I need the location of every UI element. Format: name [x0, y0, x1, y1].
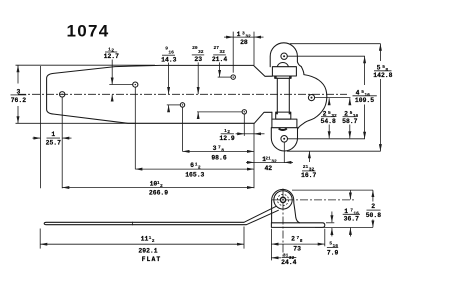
strap end extension lower — [253, 124, 255, 189]
svg-text:16: 16 — [333, 243, 339, 249]
dim 5/16 7.9 label — [327, 241, 339, 257]
plate middle hole — [308, 95, 314, 101]
dim 9/16 14.3 leader and arrows — [168, 63, 170, 95]
top knuckle band — [272, 67, 296, 76]
dim 1 7/16 36.7 — [349, 190, 351, 199]
dim 1/2 12.7 label — [104, 46, 120, 60]
side top extension line — [292, 189, 373, 191]
dim 6 1/2 165.3 — [135, 168, 254, 170]
svg-text:50.8: 50.8 — [366, 212, 382, 219]
hole C leader down — [182, 107, 184, 151]
base right extension — [324, 229, 326, 247]
svg-text:165.3: 165.3 — [185, 171, 204, 178]
dim 29/32 23 label — [192, 45, 204, 63]
svg-text:21.4: 21.4 — [212, 56, 228, 63]
svg-text:58.7: 58.7 — [342, 118, 358, 125]
svg-text:27: 27 — [213, 45, 219, 51]
svg-text:24.4: 24.4 — [281, 259, 297, 266]
svg-text:2: 2 — [152, 238, 155, 244]
svg-text:2: 2 — [160, 183, 163, 189]
dim 1/25.7 label — [46, 131, 62, 146]
butt plate right lobe outline — [298, 67, 327, 129]
plate bottom hole — [281, 136, 288, 143]
svg-text:36.7: 36.7 — [344, 216, 360, 223]
bracket base plate — [271, 223, 324, 228]
svg-text:1: 1 — [51, 131, 55, 138]
dim 5/16 7.9 arrows — [331, 212, 333, 223]
svg-text:266.9: 266.9 — [149, 190, 168, 197]
hole B row extension — [109, 84, 133, 86]
svg-text:2: 2 — [371, 203, 375, 210]
dim 10 1/2 266.9 — [62, 187, 254, 189]
flat strap side profile — [44, 206, 278, 224]
dim 3/76.2 dimension line — [17, 65, 19, 83]
svg-text:3: 3 — [213, 145, 217, 152]
svg-text:8: 8 — [300, 238, 303, 244]
dim 31/32 24.4 — [271, 257, 281, 259]
dim 1/25.7 arrows — [33, 137, 41, 139]
hole D leader down — [243, 114, 245, 136]
svg-text:2: 2 — [323, 110, 327, 117]
strap leaf outline — [47, 65, 273, 123]
plate bottom hole leader down — [283, 142, 285, 163]
dim 27/32 21.4 label — [212, 45, 228, 63]
knuckle strip end shading — [275, 76, 277, 78]
strap hidden curl dashed arc — [274, 192, 279, 203]
plate top hole extension line — [288, 55, 365, 57]
butt plate bottom dome — [271, 128, 297, 151]
hole B leader down — [134, 87, 136, 169]
plate middle hole extension line — [315, 97, 351, 99]
svg-text:29: 29 — [192, 45, 198, 51]
side bottom extension line — [315, 226, 373, 228]
svg-text:4: 4 — [356, 90, 360, 97]
svg-text:7.9: 7.9 — [327, 249, 339, 256]
hole B — [133, 82, 138, 87]
dim 11 1/2 292.1 FLAT — [39, 229, 41, 249]
svg-text:21: 21 — [265, 155, 271, 161]
strap-barrel joint line — [271, 112, 273, 119]
hole D row extension — [197, 111, 242, 113]
svg-text:25.7: 25.7 — [46, 139, 62, 146]
plate bottom extension line — [287, 150, 381, 152]
lower knuckle strip — [276, 112, 291, 119]
svg-text:28: 28 — [240, 39, 248, 46]
svg-text:292.1: 292.1 — [138, 248, 157, 255]
svg-text:FLAT: FLAT — [142, 256, 162, 263]
dim 1 3/32 28 — [224, 36, 233, 38]
hole C row extension — [167, 104, 180, 106]
svg-text:32: 32 — [271, 158, 277, 164]
strap mid tick — [132, 222, 134, 225]
dim 1/2 12.7 leader and arrows — [111, 60, 113, 85]
svg-text:109.5: 109.5 — [355, 97, 374, 104]
dim 3/76.2 top extension line — [16, 64, 156, 66]
dim 3/76.2 label — [11, 88, 27, 104]
svg-text:54.8: 54.8 — [321, 118, 337, 125]
dim 3 7/8 98.6 — [183, 150, 255, 152]
svg-text:76.2: 76.2 — [11, 97, 27, 104]
dim 2 50.8 — [372, 190, 374, 201]
hole A — [60, 92, 65, 97]
svg-text:42: 42 — [264, 165, 272, 172]
svg-text:1: 1 — [237, 31, 241, 38]
svg-text:98.6: 98.6 — [211, 154, 227, 161]
hole E — [231, 75, 235, 79]
dim 3/76.2 bottom extension line — [16, 122, 136, 124]
svg-text:16.7: 16.7 — [301, 172, 317, 179]
svg-text:31: 31 — [283, 252, 289, 258]
svg-text:2: 2 — [344, 110, 348, 117]
svg-text:5: 5 — [377, 65, 381, 72]
lower knuckle band — [272, 119, 297, 128]
bottom curl arc — [279, 128, 287, 130]
base top edge extension — [326, 222, 334, 224]
dim 2 7/8 73 — [271, 243, 324, 245]
left extension line x=40.5 — [40, 66, 42, 188]
plate top hole — [281, 53, 287, 59]
svg-text:8: 8 — [221, 147, 224, 153]
svg-text:73: 73 — [293, 246, 301, 253]
svg-text:23: 23 — [194, 56, 202, 63]
bracket vertical plate — [272, 189, 300, 222]
dim 2 5/16 58.7 — [349, 98, 351, 104]
barrel dashed circle — [277, 194, 288, 205]
svg-text:12.7: 12.7 — [104, 53, 120, 60]
svg-text:1074: 1074 — [67, 22, 110, 41]
dim 2 5/32 54.8 — [328, 98, 330, 104]
hole C — [180, 103, 184, 107]
pin centerline horizontal — [272, 199, 355, 201]
dim 5 5/8 142.8 — [379, 44, 381, 61]
svg-text:14.3: 14.3 — [161, 56, 177, 63]
centerline top view — [18, 93, 347, 95]
svg-text:12.9: 12.9 — [219, 135, 235, 142]
dim 29/32 23 leader and arrows — [197, 62, 199, 94]
dim 4 5/16 109.5 — [364, 56, 366, 85]
svg-text:1: 1 — [344, 208, 348, 215]
plate top extension line — [290, 43, 381, 45]
svg-text:6: 6 — [190, 162, 194, 169]
dim 1 21/32 42 — [246, 161, 254, 163]
hole E leader up — [232, 32, 234, 73]
dim 1/2 12.9 — [236, 133, 245, 135]
svg-text:142.8: 142.8 — [373, 72, 392, 79]
top curl arc — [277, 63, 288, 67]
plate bottom hole extension line — [288, 138, 365, 140]
dim 9/16 14.3 label — [161, 46, 177, 64]
hole A leader line — [61, 97, 63, 188]
dim 27/32 21.4 leader — [219, 62, 221, 77]
top knuckle strip — [275, 76, 291, 78]
svg-text:32: 32 — [198, 49, 204, 55]
hole D — [242, 110, 246, 114]
barrel circle — [274, 191, 292, 209]
svg-text:21: 21 — [303, 164, 309, 170]
svg-text:16: 16 — [168, 49, 174, 55]
svg-text:2: 2 — [198, 164, 201, 170]
pin centerline vertical — [282, 189, 284, 259]
pin — [280, 197, 285, 202]
base left extension — [270, 229, 272, 261]
svg-text:32: 32 — [219, 49, 225, 55]
strap end extension upper — [253, 32, 255, 66]
svg-text:11: 11 — [141, 235, 149, 242]
dim 21/32 16.7 — [308, 151, 310, 162]
butt plate top dome — [270, 43, 301, 67]
pin barrel narrow section — [276, 78, 278, 112]
svg-text:2: 2 — [291, 235, 295, 242]
svg-text:3: 3 — [16, 88, 20, 95]
hole E row extension — [218, 76, 231, 78]
